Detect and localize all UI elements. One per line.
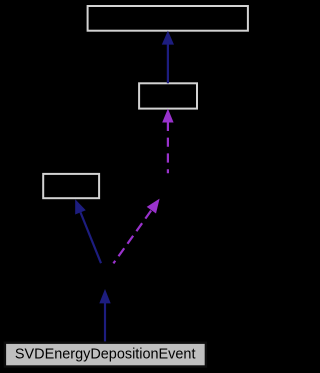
node box: top wide class box (label hidden on black) xyxy=(88,6,248,31)
node box: SVDEnergyDepositionEvent (current class, filled) xyxy=(5,343,206,367)
wire: inheritance arrow middle box to top box (solid blue) xyxy=(162,31,174,84)
wire: inheritance arrow bottom box to hidden node A (solid blue) xyxy=(99,289,110,341)
node box: left class box (label hidden on black) xyxy=(43,174,99,198)
wire: inheritance arrow hidden node A to left box (solid blue diagonal) xyxy=(75,199,101,263)
wire: usage arrow hidden node B to middle box (dashed purple) xyxy=(162,109,173,174)
svg-text:SVDEnergyDepositionEvent: SVDEnergyDepositionEvent xyxy=(15,347,196,363)
node box: middle class box (label hidden on black) xyxy=(139,83,197,108)
wire: usage arrow hidden node A to hidden node B (dashed purple diagonal) xyxy=(113,199,159,264)
